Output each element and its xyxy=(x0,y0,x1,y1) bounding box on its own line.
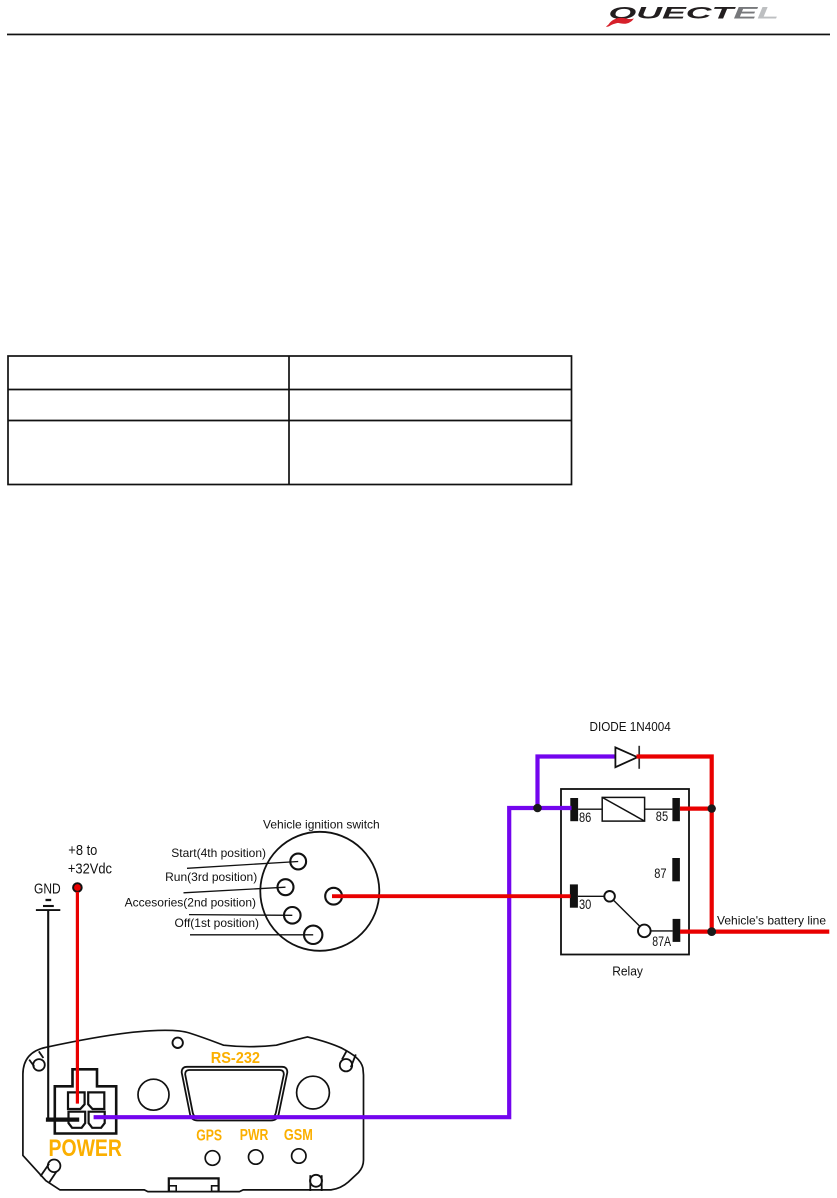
junction battery/pin87A xyxy=(707,927,716,936)
label GSM xyxy=(284,1127,313,1144)
label +8 to +32Vdc xyxy=(68,841,97,858)
pin label 85 xyxy=(656,809,668,824)
svg-text:30: 30 xyxy=(579,897,591,912)
svg-text:DIODE 1N4004: DIODE 1N4004 xyxy=(590,720,671,735)
label GND xyxy=(34,880,61,897)
device mounting hole bottom-left xyxy=(40,1160,60,1184)
svg-text:POWER: POWER xyxy=(49,1134,123,1161)
svg-text:GPS: GPS xyxy=(196,1126,222,1144)
+V wire (red, to power connector) xyxy=(76,892,79,1104)
svg-text:Vehicle's battery line: Vehicle's battery line xyxy=(717,914,826,928)
switch position Accesories xyxy=(284,907,301,924)
power connector pins xyxy=(68,1092,105,1127)
svg-text:RS-232: RS-232 xyxy=(211,1050,260,1068)
diode D1 1N4004 xyxy=(615,746,639,769)
svg-text:87A: 87A xyxy=(652,934,672,950)
wire pin30 to contact a xyxy=(578,895,604,897)
switch common terminal xyxy=(325,888,342,905)
svg-text:GSM: GSM xyxy=(284,1127,313,1144)
pin label 87 xyxy=(654,866,666,881)
RS-232 connector (DB9 trapezoid) xyxy=(182,1067,288,1121)
switch position Start xyxy=(290,854,306,870)
red wire: diode cathode to battery line xyxy=(637,757,712,932)
svg-text:GND: GND xyxy=(34,880,61,897)
table (empty 3x2) xyxy=(8,356,572,485)
junction battery/pin85 xyxy=(708,804,716,812)
svg-text:+8 to: +8 to xyxy=(68,841,97,858)
relay pin 87 xyxy=(672,858,680,881)
relay K1 body xyxy=(561,789,689,955)
header logo QUECTEL xyxy=(606,3,779,27)
purple wire: device to relay pin 86 xyxy=(94,808,572,1117)
device mounting hole top-right xyxy=(340,1051,356,1072)
red wire: pin 85 to battery branch xyxy=(680,806,712,810)
device screw hole top xyxy=(173,1038,183,1048)
pin label 87A xyxy=(652,934,672,950)
vehicle ignition switch body xyxy=(260,832,379,951)
relay pin 85 xyxy=(672,798,680,821)
red wire: ignition switch common to relay pin 30 xyxy=(332,894,571,898)
pointer line Accesories xyxy=(189,914,292,917)
pin label 30 xyxy=(579,897,591,912)
svg-text:Accesories(2nd position): Accesories(2nd position) xyxy=(125,895,256,909)
relay switch contact a xyxy=(604,891,615,902)
relay pin 86 xyxy=(570,798,578,821)
GPS tracker device outline xyxy=(23,1030,364,1191)
svg-text:85: 85 xyxy=(656,809,668,824)
switch position Off xyxy=(304,926,322,944)
label DIODE 1N4004 xyxy=(590,720,671,735)
ground wire into power pin xyxy=(46,1117,79,1121)
relay coil xyxy=(602,797,644,821)
wire coil to pin85 xyxy=(645,808,673,810)
LED hole PWR xyxy=(249,1150,263,1164)
device mounting hole top-left xyxy=(29,1051,45,1070)
svg-text:87: 87 xyxy=(654,866,666,881)
label RS-232 xyxy=(211,1050,260,1068)
junction purple branch xyxy=(533,804,542,813)
label Relay xyxy=(612,964,643,978)
svg-text:Start(4th position): Start(4th position) xyxy=(171,846,266,860)
label PWR xyxy=(240,1126,269,1144)
svg-text:PWR: PWR xyxy=(240,1126,269,1144)
power connector J1 (4-pin) xyxy=(55,1069,116,1133)
ground wire (vertical) xyxy=(47,910,49,1119)
pointer line Start xyxy=(187,862,298,869)
svg-text:Off(1st position): Off(1st position) xyxy=(175,916,259,930)
switch position Run xyxy=(278,879,294,895)
wire pin86 to coil xyxy=(578,808,602,810)
device right round opening xyxy=(297,1076,330,1109)
pin label 86 xyxy=(579,810,591,825)
relay switch arm xyxy=(613,900,640,926)
label POWER xyxy=(49,1134,123,1161)
purple wire: branch up to diode anode xyxy=(538,757,616,809)
device bottom tab xyxy=(169,1178,219,1191)
pointer line Off xyxy=(190,934,313,936)
svg-text:QUECTEL: QUECTEL xyxy=(609,3,779,22)
svg-text:86: 86 xyxy=(579,810,591,825)
wire contact b to pin 87A xyxy=(651,930,673,932)
relay pin 30 xyxy=(570,884,578,907)
svg-text:Relay: Relay xyxy=(612,964,643,978)
svg-text:Vehicle ignition switch: Vehicle ignition switch xyxy=(263,818,380,832)
pointer line Run xyxy=(184,887,286,893)
svg-text:Run(3rd position): Run(3rd position) xyxy=(165,870,257,884)
red wire: battery line bottom xyxy=(680,929,829,933)
ground symbol xyxy=(36,900,60,910)
label GPS xyxy=(196,1126,222,1144)
LED hole GSM xyxy=(292,1149,306,1163)
device mounting hole bottom-right xyxy=(310,1175,322,1191)
svg-text:+32Vdc: +32Vdc xyxy=(68,860,112,877)
relay pin 87A xyxy=(673,919,681,942)
relay switch contact b xyxy=(638,925,651,938)
LED hole GPS xyxy=(205,1151,220,1166)
+V terminal xyxy=(73,883,82,892)
header rule xyxy=(7,34,830,36)
device left round opening xyxy=(138,1079,169,1110)
